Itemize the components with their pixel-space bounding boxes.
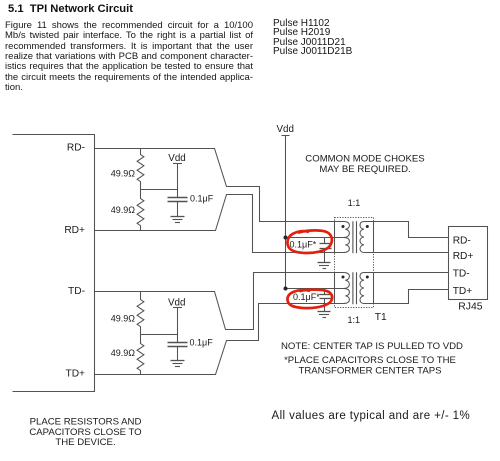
- transformer T1 top secondary winding: [360, 222, 374, 253]
- phase dot (bottom primary): [342, 276, 345, 279]
- svg-text:49.9Ω: 49.9Ω: [111, 169, 136, 179]
- svg-text:RD+: RD+: [64, 225, 85, 236]
- transformer T1 bottom secondary winding: [360, 273, 374, 304]
- svg-text:COMMON MODE CHOKES: COMMON MODE CHOKES: [305, 153, 424, 164]
- annotation red ellipse (top 0.1uF*): [287, 230, 331, 253]
- wire RD+ from device to funnel to transformer: [95, 195, 335, 253]
- resistor R4 49.9 ohm (TD lower): [137, 335, 144, 375]
- svg-text:TD-: TD-: [68, 286, 85, 297]
- power Vdd symbol (TD section): [173, 307, 182, 309]
- svg-text:49.9Ω: 49.9Ω: [111, 348, 136, 358]
- svg-text:THE DEVICE.: THE DEVICE.: [55, 437, 115, 448]
- wire RD junction to capacitor: [141, 189, 178, 191]
- transformer T1 dashed outline: [335, 218, 374, 308]
- svg-text:MAY BE REQUIRED.: MAY BE REQUIRED.: [319, 164, 410, 175]
- capacitor C4 0.1uF* (bottom center tap): [324, 289, 326, 295]
- svg-text:All values are typical and are: All values are typical and are +/- 1%: [272, 410, 471, 422]
- ground (top center tap cap): [318, 262, 331, 264]
- svg-text:0.1μF*: 0.1μF*: [290, 239, 317, 249]
- ground (RD section): [171, 216, 185, 218]
- capacitor C2 0.1uF (TD section): [168, 342, 188, 344]
- transformer T1 top primary winding: [335, 222, 350, 253]
- svg-text:0.1μF*: 0.1μF*: [293, 292, 320, 302]
- wire center tap (top transformer): [286, 237, 346, 239]
- wire secondary RD+ to RJ45: [374, 252, 449, 254]
- svg-text:TD+: TD+: [65, 368, 85, 379]
- svg-text:RJ45: RJ45: [458, 301, 482, 312]
- svg-text:TRANSFORMER CENTER TAPS: TRANSFORMER CENTER TAPS: [298, 365, 441, 376]
- svg-text:0.1μF: 0.1μF: [190, 193, 214, 203]
- svg-text:Vdd: Vdd: [168, 298, 185, 309]
- svg-text:T1: T1: [375, 312, 387, 323]
- transformer T1 bottom core: [353, 272, 357, 304]
- svg-text:Vdd: Vdd: [277, 124, 294, 135]
- svg-text:RD+: RD+: [453, 251, 474, 262]
- wire TD- from device to funnel to transformer: [95, 273, 335, 330]
- power Vdd symbol (main, top center): [282, 135, 290, 137]
- wire secondary RD- to RJ45: [374, 222, 449, 238]
- junction dot (top center tap): [284, 236, 288, 240]
- ground (bottom center tap cap): [318, 311, 331, 313]
- wire RD- from device to funnel to transformer: [95, 149, 335, 222]
- phase dot (bottom secondary): [366, 276, 369, 279]
- svg-text:RD-: RD-: [453, 235, 471, 246]
- capacitor C1 0.1uF (RD section): [168, 197, 188, 199]
- phase dot (top secondary): [366, 225, 369, 228]
- ground (TD section): [171, 360, 185, 362]
- transformer T1 top core: [353, 221, 357, 253]
- svg-text:49.9Ω: 49.9Ω: [111, 205, 136, 215]
- device box U1 (PHY IC, open left side): [13, 135, 95, 392]
- svg-text:49.9Ω: 49.9Ω: [111, 314, 136, 324]
- capacitor C3 0.1uF* (top center tap): [324, 238, 326, 244]
- wire secondary TD- to RJ45: [374, 272, 449, 274]
- svg-text:TD-: TD-: [453, 269, 470, 280]
- transformer T1 bottom primary winding: [335, 273, 350, 304]
- svg-text:RD-: RD-: [67, 142, 85, 153]
- svg-text:NOTE: CENTER TAP IS PULLED TO: NOTE: CENTER TAP IS PULLED TO VDD: [281, 341, 463, 352]
- wire TD junction to capacitor: [141, 334, 178, 336]
- wire TD+ from device to funnel to transformer: [95, 304, 335, 375]
- svg-text:PLACE RESISTORS AND: PLACE RESISTORS AND: [30, 416, 142, 427]
- resistor R1 49.9 ohm (RD upper): [137, 149, 144, 190]
- svg-text:0.1μF: 0.1μF: [190, 338, 214, 348]
- phase dot (top primary): [342, 225, 345, 228]
- svg-text:1:1: 1:1: [348, 198, 361, 208]
- svg-text:*PLACE CAPACITORS CLOSE TO THE: *PLACE CAPACITORS CLOSE TO THE: [284, 355, 456, 366]
- wire secondary TD+ to RJ45: [374, 290, 449, 304]
- resistor R3 49.9 ohm (TD upper): [137, 292, 144, 335]
- resistor R2 49.9 ohm (RD lower): [137, 190, 144, 231]
- svg-text:TD+: TD+: [453, 286, 473, 297]
- svg-text:1:1: 1:1: [348, 315, 361, 325]
- power Vdd symbol (RD section): [173, 163, 182, 165]
- wire center tap (bottom transformer): [286, 288, 346, 290]
- svg-text:Vdd: Vdd: [168, 153, 185, 164]
- junction dot (bottom center tap): [284, 287, 288, 291]
- wire Vdd rail down to center taps: [285, 136, 287, 289]
- annotation red ellipse (bottom 0.1uF*): [287, 290, 332, 308]
- connector RJ45 box: [449, 227, 488, 300]
